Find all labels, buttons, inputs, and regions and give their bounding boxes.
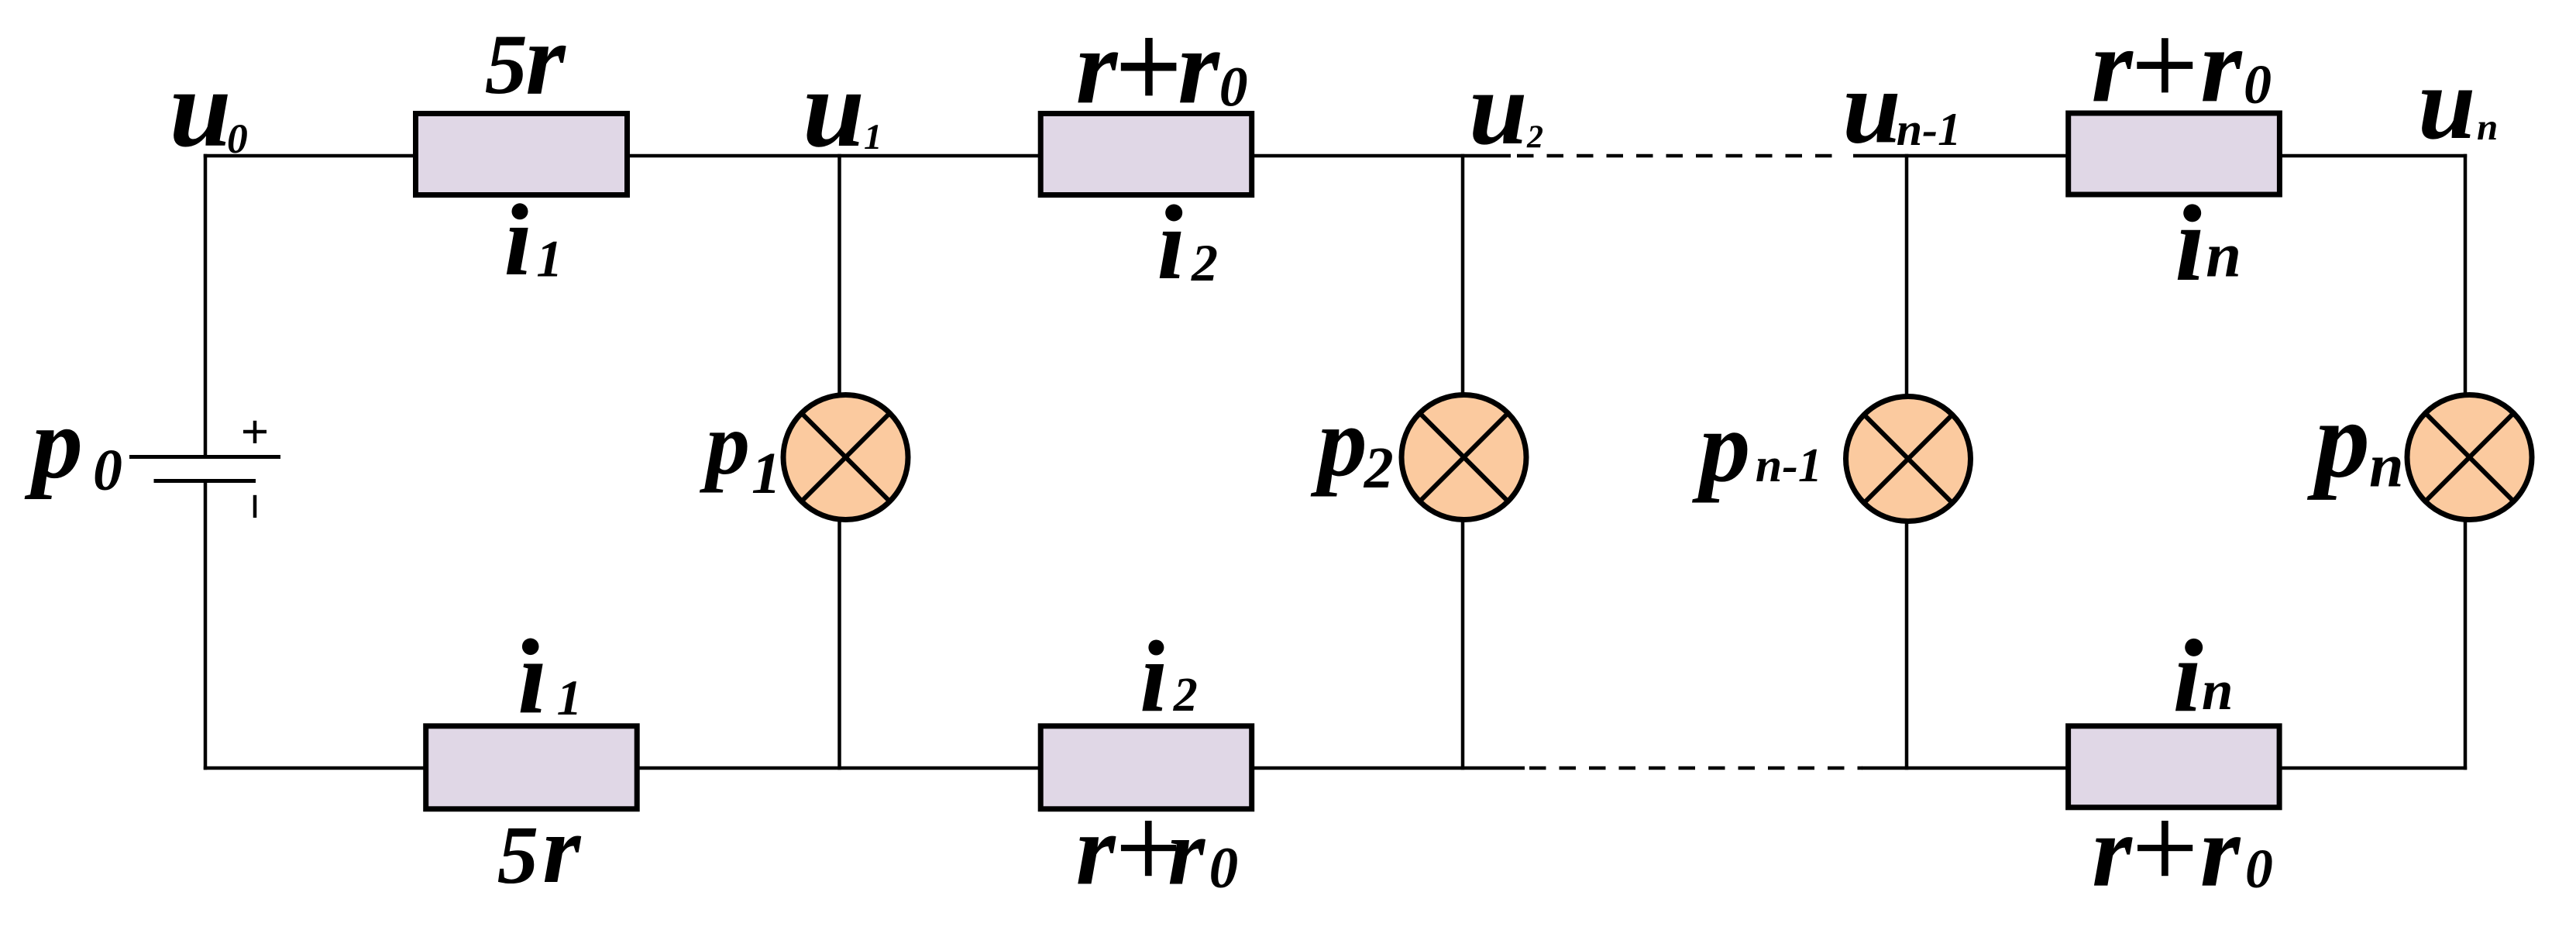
svg-text:ı: ı [2175,184,2206,304]
node label u0 [170,47,248,170]
battery p0 [129,421,280,518]
wire bottom rail dashed [1529,766,1862,770]
resistor r+r0 bottom middle [1040,726,1252,809]
current label i1 top [504,184,562,297]
label pn [2306,378,2404,501]
value label r+r0 top middle [1076,7,1248,126]
wire bottom rail right solid [1862,766,2467,770]
wire node u2 vertical upper [1461,154,1465,394]
svg-text:n: n [2206,219,2241,290]
svg-text:1: 1 [557,670,583,726]
svg-text:u: u [170,47,232,170]
label p1 [699,394,781,506]
svg-text:r: r [1076,794,1116,906]
battery minus sign [253,495,257,518]
wire node un-1 vertical lower [1905,522,1909,770]
lamp p1 [783,395,908,520]
current label i2 bottom [1140,621,1197,733]
svg-text:p: p [1310,387,1367,497]
svg-text:5: 5 [485,17,528,112]
resistor 5r top [416,114,628,195]
lamp p2 [1401,395,1526,520]
wire right vertical upper (un to lamp pn) [2464,154,2468,394]
wire left vertical upper (u0 to battery +) [204,154,208,455]
value label r+r0 bottom right [2092,794,2273,908]
lamp pn-1 [1846,397,1971,522]
svg-text:p: p [1691,389,1750,503]
wire top rail dashed (u2 to un-1) [1517,154,1844,158]
svg-text:u: u [1842,49,1901,165]
svg-text:n-1: n-1 [1897,104,1961,155]
resistor r+r0 top middle [1040,114,1252,195]
svg-text:r: r [1178,7,1220,126]
svg-text:p: p [699,394,750,493]
svg-text:2: 2 [1173,669,1198,722]
label p0 (battery) [24,386,122,503]
svg-text:5: 5 [497,810,538,901]
current label in top [2175,184,2241,304]
label pn-1 [1691,389,1822,503]
svg-text:1: 1 [864,117,882,157]
svg-text:u: u [803,47,865,170]
svg-text:n-1: n-1 [1756,439,1822,492]
value label 5r top [485,2,567,116]
svg-text:2: 2 [1526,119,1543,155]
svg-text:r: r [2200,6,2243,124]
node label un-1 [1842,49,1961,165]
battery plus sign [243,430,267,434]
svg-text:ı: ı [504,184,532,297]
svg-text:r: r [1168,798,1205,904]
svg-text:0: 0 [2244,53,2272,115]
wire right vertical lower (lamp pn to bottom rail) [2464,521,2468,770]
resistor 5r bottom [426,726,638,809]
svg-text:p: p [24,386,83,500]
svg-text:0: 0 [1209,836,1239,901]
svg-text:n: n [2202,659,2234,722]
svg-text:n: n [2369,432,2404,500]
lamp pn [2407,395,2532,520]
svg-text:r: r [2092,794,2133,908]
svg-text:r: r [1076,7,1119,126]
node label un [2418,46,2498,160]
svg-text:p: p [2306,378,2370,501]
current label i2 top [1157,188,1218,301]
wire node un-1 vertical upper [1905,154,1909,396]
resistor r+r0 top right [2069,113,2280,195]
value label r+r0 bottom middle [1076,794,1239,906]
wire node u1 vertical upper [837,154,841,394]
svg-text:u: u [1469,50,1528,167]
wire bottom rail left solid [204,766,1525,770]
svg-text:1: 1 [751,441,781,506]
svg-text:n: n [2477,105,2498,148]
node label u1 [803,47,882,170]
svg-text:0: 0 [1219,56,1248,119]
wire node u2 vertical lower [1461,521,1465,770]
svg-text:ı: ı [518,618,547,735]
value label 5r bottom [497,796,581,904]
wire node u1 vertical lower [837,521,841,770]
svg-text:r: r [542,796,581,904]
current label i1 bottom [518,618,582,735]
svg-text:ı: ı [1140,621,1168,733]
current label in bottom [2173,618,2234,733]
current label i dots (enlarged to match target) [512,203,2203,656]
svg-text:2: 2 [1364,436,1394,501]
node label u2 [1469,50,1543,167]
wire top rail right solid (un-1 to un) [1853,154,2467,158]
value label r+r0 top right [2091,6,2272,124]
svg-text:1: 1 [536,229,562,288]
svg-text:0: 0 [227,115,248,162]
svg-text:r: r [2091,6,2134,124]
label p2 [1310,387,1394,501]
svg-text:r: r [525,2,566,116]
svg-text:r: r [2200,794,2241,908]
battery bottom plate (negative) [154,479,256,483]
svg-text:2: 2 [1191,233,1218,292]
battery top plate (positive) [129,455,280,459]
svg-text:u: u [2418,46,2476,160]
svg-text:ı: ı [2173,618,2202,733]
svg-text:0: 0 [93,438,122,503]
wire left vertical lower (battery - to bottom rail) [204,483,208,770]
resistor r+r0 bottom right [2069,726,2280,808]
svg-text:0: 0 [2245,839,2273,900]
wire top rail left solid (u0 to u2) [204,154,1511,158]
